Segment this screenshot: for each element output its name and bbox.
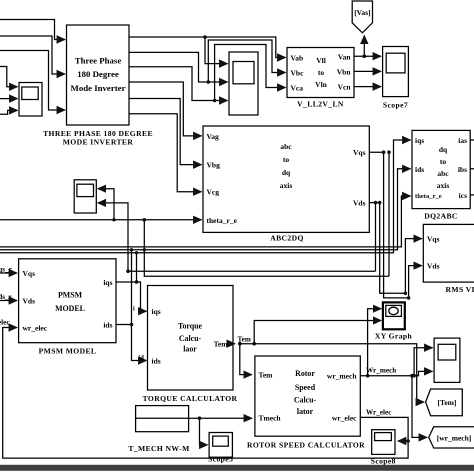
node Tem junction1 xyxy=(238,342,242,346)
wire ids riser to H2 xyxy=(131,250,133,325)
svg-text:Vbc: Vbc xyxy=(291,69,305,78)
svg-text:iqs: iqs xyxy=(415,136,424,145)
scope Scope7 xyxy=(383,47,409,97)
node iqs junction xyxy=(135,280,139,284)
wire branch wr_mech to [wr_mech] tag xyxy=(412,376,427,438)
node H2 tap xyxy=(143,248,146,251)
node junction out1 xyxy=(203,35,207,39)
svg-text:lator: lator xyxy=(297,407,314,416)
svg-text:Calcu-: Calcu- xyxy=(294,396,317,405)
wire Vqs drop to 276 line xyxy=(388,152,390,276)
wire inverter out2 to scope2 in2 xyxy=(129,52,228,82)
node Vds drop tap xyxy=(374,201,378,205)
svg-text:MODEL: MODEL xyxy=(55,304,85,313)
wire Tem output xyxy=(232,343,235,345)
wire branch Tem to rotor Tem input xyxy=(240,344,252,375)
wire Vcn to scope7 xyxy=(354,86,381,88)
node scope3 tap1 xyxy=(112,218,115,221)
wire Tmech to rotor xyxy=(189,417,252,419)
svg-text:DQ2ABC: DQ2ABC xyxy=(424,212,458,221)
block T_MECH constant xyxy=(136,406,189,432)
scope Scope1 top-left xyxy=(19,83,42,117)
svg-text:axis: axis xyxy=(437,181,450,190)
wire branch wr_mech to scope9 in1 xyxy=(414,348,432,376)
svg-text:180 Degree: 180 Degree xyxy=(77,69,119,79)
svg-text:Wr_elec: Wr_elec xyxy=(366,409,392,417)
svg-text:wr_elec: wr_elec xyxy=(0,319,10,327)
wire branch Tem to XY graph in2 xyxy=(254,321,381,344)
svg-text:id: id xyxy=(139,355,145,362)
svg-text:Vqs: Vqs xyxy=(427,235,440,244)
wire scope3 input2 riser xyxy=(98,203,128,271)
block U5 RMS xyxy=(423,224,474,282)
wire scope3 input1 from theta line xyxy=(98,189,114,220)
scope Scope3 above PMSM xyxy=(74,180,96,213)
wire branch out3 to Vca xyxy=(215,45,286,101)
svg-text:ics: ics xyxy=(459,191,467,200)
block U3 ABC2DQ xyxy=(203,126,369,232)
scope Scope8 xyxy=(372,430,395,455)
block U4 DQ2ABC xyxy=(412,130,470,208)
node Vqs out junction xyxy=(382,150,386,154)
wire Vds_r input xyxy=(0,300,17,302)
inverter block U1 Three Phase 180 Degree Mode Inverter xyxy=(67,25,130,125)
svg-text:Vqs_r: Vqs_r xyxy=(0,266,13,274)
wire scope1 input1 xyxy=(0,67,18,87)
svg-text:iqs: iqs xyxy=(152,307,161,316)
block U6 PMSM MODEL xyxy=(19,259,116,343)
goto tag [Vas] xyxy=(352,1,372,33)
svg-text:to: to xyxy=(440,157,446,166)
wire branch into Scope8 xyxy=(398,440,408,442)
svg-text:ROTOR SPEED CALCULATOR: ROTOR SPEED CALCULATOR xyxy=(247,441,365,450)
wire scope1 input2 xyxy=(0,98,18,100)
wire H2 long line to DQ2ABC ids xyxy=(0,169,411,250)
svg-text:Tem: Tem xyxy=(259,371,274,380)
svg-text:Tem: Tem xyxy=(214,339,229,348)
svg-text:abc: abc xyxy=(280,142,292,151)
svg-text:Vbn: Vbn xyxy=(337,68,352,77)
svg-text:Vqs: Vqs xyxy=(23,269,36,278)
svg-text:[Tem]: [Tem] xyxy=(438,398,457,407)
svg-text:Vcn: Vcn xyxy=(338,83,352,92)
svg-text:to: to xyxy=(318,68,324,77)
svg-text:XY Graph: XY Graph xyxy=(375,332,413,341)
svg-text:theta_r_e: theta_r_e xyxy=(207,216,238,225)
node scope3 tap2 xyxy=(126,269,130,273)
wire H3 long line to DQ2ABC iqs xyxy=(0,140,411,253)
wire ias output stub xyxy=(470,139,474,141)
svg-text:wr_mech: wr_mech xyxy=(327,372,357,381)
svg-text:[wr_mech]: [wr_mech] xyxy=(437,434,472,443)
wire scope3 branch along 271 xyxy=(128,270,376,272)
wire branch wr_mech to XY graph in1 xyxy=(368,309,382,376)
node wr_mech junction3 xyxy=(412,374,416,378)
svg-text:wr_elec: wr_elec xyxy=(332,414,357,423)
wire ics output stub xyxy=(470,194,474,196)
node junction out3 xyxy=(213,99,217,103)
svg-text:Vll: Vll xyxy=(316,56,326,65)
goto tag [wr_mech] xyxy=(429,427,474,448)
svg-text:Wr_mech: Wr_mech xyxy=(366,367,396,375)
wire iqs from PMSM to torque calculator xyxy=(116,282,147,311)
svg-text:ias: ias xyxy=(458,136,467,145)
svg-text:Vds: Vds xyxy=(427,262,440,271)
scope Scope9 right xyxy=(434,338,460,382)
wire Vbn to scope7 xyxy=(354,70,381,72)
wire inverter out4 to Vag xyxy=(129,82,202,136)
wire input2 to inverter xyxy=(0,36,65,74)
wire iqs riser to H3 xyxy=(136,253,138,282)
svg-text:to: to xyxy=(283,155,289,164)
wire inverter out3 to scope2 in3 xyxy=(129,67,228,101)
svg-text:PMSM: PMSM xyxy=(58,291,83,300)
block U2 V_LL2V_LN xyxy=(287,48,354,98)
svg-text:Vds_r: Vds_r xyxy=(0,293,13,301)
wire branch Van up to [Vas] xyxy=(363,36,365,57)
goto tag [Tem] xyxy=(426,389,463,416)
svg-text:MODE INVERTER: MODE INVERTER xyxy=(63,137,134,146)
svg-text:laor: laor xyxy=(183,345,197,354)
svg-text:[Vas]: [Vas] xyxy=(354,8,370,17)
svg-text:Three Phase: Three Phase xyxy=(75,56,122,66)
node Vqs drop tap xyxy=(387,150,391,154)
wire ids from PMSM to torque calculator xyxy=(116,325,147,361)
svg-text:Speed: Speed xyxy=(295,383,316,392)
svg-text:axis: axis xyxy=(280,181,293,190)
wire Vds drop to 271 line xyxy=(375,203,377,272)
node ids junction xyxy=(130,323,134,327)
node iqs H3 tap xyxy=(135,251,138,254)
svg-text:dq: dq xyxy=(439,145,448,154)
wire inverter out5 to Vbg xyxy=(129,99,202,165)
svg-text:Mode Inverter: Mode Inverter xyxy=(71,83,126,93)
node RMS feed junction1 xyxy=(404,292,408,296)
svg-text:iqs: iqs xyxy=(103,278,112,287)
svg-text:Vab: Vab xyxy=(291,54,304,63)
svg-text:Vag: Vag xyxy=(207,132,219,141)
svg-text:Rotor: Rotor xyxy=(295,369,315,378)
wire inverter out1 to Vab xyxy=(129,37,286,58)
wire Tem long line to [Tem] xyxy=(240,344,424,402)
wire wr_mech to scope9 in2 xyxy=(360,371,432,375)
wire H1 long line to DQ2ABC theta_r_e xyxy=(0,196,411,247)
svg-text:Tmech: Tmech xyxy=(259,414,282,423)
wire theta drop to H1 xyxy=(144,220,389,276)
block U8 Rotor Speed Calculator xyxy=(255,356,360,436)
svg-text:TORQUE CALCULATOR: TORQUE CALCULATOR xyxy=(143,394,238,403)
wire ibs output stub xyxy=(470,168,474,170)
svg-text:Vca: Vca xyxy=(291,84,304,93)
node Tmech junction xyxy=(198,416,202,420)
svg-text:Vds: Vds xyxy=(23,297,36,306)
node wr_mech junction1 xyxy=(366,374,370,378)
wire theta_r_e long line into ABC2DQ xyxy=(0,219,202,221)
svg-text:V_LL2V_LN: V_LL2V_LN xyxy=(297,100,344,109)
svg-text:Vcg: Vcg xyxy=(207,188,220,197)
scope Scope2 xyxy=(229,52,258,115)
svg-text:Vds: Vds xyxy=(353,199,366,208)
node ids H2 tap xyxy=(130,248,133,251)
wire input1 to inverter xyxy=(0,20,65,40)
svg-text:Vln: Vln xyxy=(315,80,328,89)
wire branch out1 to scope2 in1 xyxy=(205,37,228,64)
node theta junction xyxy=(143,218,147,222)
scope Scope5 xyxy=(209,433,232,458)
svg-text:abc: abc xyxy=(437,169,449,178)
node Tem junction2 xyxy=(252,342,256,346)
node Vds out junction xyxy=(378,201,382,205)
svg-text:Van: Van xyxy=(338,53,351,62)
svg-text:RMS VLL: RMS VLL xyxy=(446,285,474,294)
wire Vds net to RMS Vqs input xyxy=(369,203,422,294)
wire inverter out6 to Vcg xyxy=(129,114,202,192)
svg-text:theta_r_e: theta_r_e xyxy=(415,193,442,200)
node wr_elec junction xyxy=(406,439,410,443)
svg-text:Vqs: Vqs xyxy=(353,148,366,157)
bottom bar xyxy=(0,465,474,471)
node wr_mech junction2 xyxy=(410,374,414,378)
node junction out2 xyxy=(207,80,211,84)
svg-text:Scope7: Scope7 xyxy=(383,101,408,110)
block XY Graph xyxy=(383,302,405,329)
node RMS feed junction2 xyxy=(407,296,411,300)
svg-text:Torque: Torque xyxy=(178,322,203,331)
svg-text:Calcu-: Calcu- xyxy=(179,334,202,343)
svg-text:Vbg: Vbg xyxy=(207,161,221,170)
svg-text:dq: dq xyxy=(282,168,291,177)
svg-text:PMSM MODEL: PMSM MODEL xyxy=(39,347,97,356)
wire wr_elec wrap-around to PMSM xyxy=(3,328,408,459)
svg-text:i: i xyxy=(133,306,135,313)
svg-text:ibs: ibs xyxy=(458,165,467,174)
svg-text:T_MECH NW-M: T_MECH NW-M xyxy=(128,444,189,453)
svg-text:ABC2DQ: ABC2DQ xyxy=(270,234,304,243)
svg-text:wr_elec: wr_elec xyxy=(23,324,48,333)
wire input3 to inverter xyxy=(0,51,65,111)
node junction Van xyxy=(363,54,367,58)
wire scope1 input3 xyxy=(0,110,18,114)
svg-text:ids: ids xyxy=(415,165,424,174)
wire Vqs_r input xyxy=(0,272,17,274)
svg-text:ids: ids xyxy=(103,321,112,330)
svg-text:ids: ids xyxy=(152,357,161,366)
wire Van to scope7 xyxy=(354,55,381,57)
block U7 Torque Calculator xyxy=(148,286,234,391)
wire Vqs net to RMS Vds input xyxy=(369,152,422,298)
wire branch to Scope5 xyxy=(200,418,208,445)
svg-text:Scope5: Scope5 xyxy=(208,455,233,464)
svg-text:Scope8: Scope8 xyxy=(371,457,396,466)
label THREE PHASE 180 DEGREE MODE INVERTER xyxy=(43,129,153,146)
wire branch out2 to Vbc xyxy=(208,40,285,82)
